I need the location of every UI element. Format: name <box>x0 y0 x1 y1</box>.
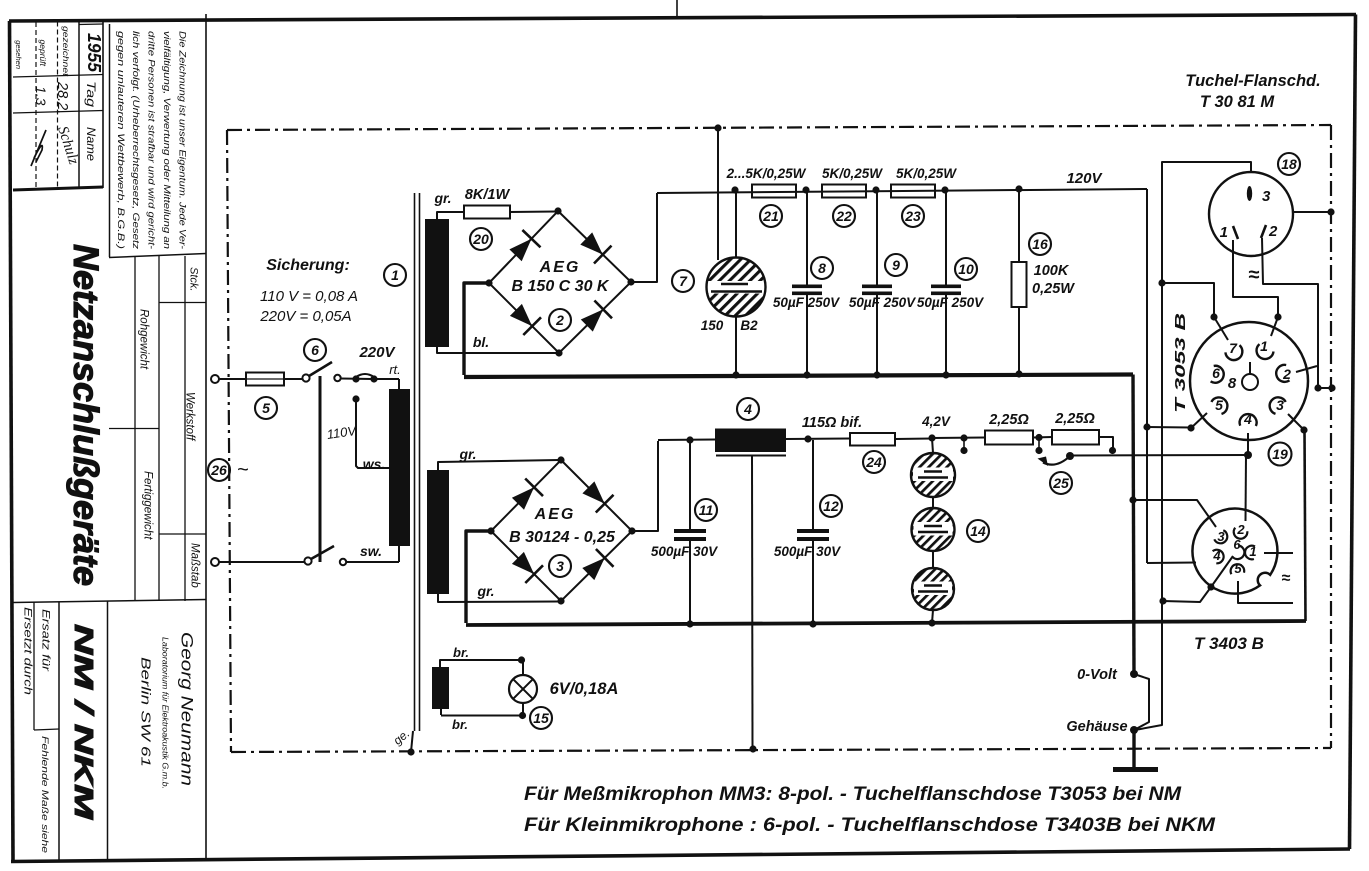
svg-text:br.: br. <box>452 717 468 732</box>
svg-text:Laboratorium für Elektroakusti: Laboratorium für Elektroakustik G.m.b. <box>161 637 170 789</box>
svg-text:23: 23 <box>904 208 921 224</box>
svg-text:gesehen: gesehen <box>14 40 23 69</box>
svg-text:120V: 120V <box>1066 170 1103 187</box>
svg-text:115Ω bif.: 115Ω bif. <box>802 415 862 431</box>
svg-text:sw.: sw. <box>360 543 382 559</box>
svg-text:4: 4 <box>1243 411 1252 427</box>
svg-text:5: 5 <box>1215 397 1223 413</box>
svg-text:gr.: gr. <box>476 583 494 599</box>
svg-text:1: 1 <box>1220 224 1228 241</box>
svg-text:gr.: gr. <box>433 190 451 206</box>
svg-text:25: 25 <box>1052 475 1069 491</box>
svg-text:2: 2 <box>555 312 564 328</box>
svg-text:5: 5 <box>1234 561 1242 576</box>
svg-text:AEG: AEG <box>534 506 576 523</box>
svg-text:B 150 C 30 K: B 150 C 30 K <box>512 278 610 295</box>
svg-text:10: 10 <box>958 261 974 277</box>
svg-text:8K/1W: 8K/1W <box>465 187 511 203</box>
svg-text:12: 12 <box>823 498 839 514</box>
svg-text:rt.: rt. <box>389 362 401 377</box>
svg-text:7: 7 <box>1229 340 1238 356</box>
svg-text:500µF 30V: 500µF 30V <box>774 544 841 559</box>
svg-text:Ersatz für: Ersatz für <box>40 609 52 673</box>
svg-text:AEG: AEG <box>539 259 581 276</box>
svg-text:T 3053 B: T 3053 B <box>1172 313 1189 413</box>
svg-text:3: 3 <box>1276 397 1284 413</box>
svg-text:4,2V: 4,2V <box>921 414 951 429</box>
svg-text:Maßstab: Maßstab <box>189 543 201 588</box>
svg-text:18: 18 <box>1281 156 1297 172</box>
svg-text:0,25W: 0,25W <box>1032 281 1075 297</box>
svg-text:Werkstoff: Werkstoff <box>184 392 196 442</box>
svg-text:2: 2 <box>1236 522 1245 537</box>
svg-text:150: 150 <box>701 318 724 333</box>
svg-text:50µF 250V: 50µF 250V <box>917 295 984 310</box>
svg-text:2,25Ω: 2,25Ω <box>988 412 1029 428</box>
svg-text:Netzanschlußgeräte: Netzanschlußgeräte <box>66 244 106 586</box>
svg-text:Rohgewicht: Rohgewicht <box>138 309 150 370</box>
svg-text:20: 20 <box>472 231 489 247</box>
svg-text:7: 7 <box>679 273 688 289</box>
svg-text:1.3: 1.3 <box>33 86 49 106</box>
svg-text:Fertiggewicht: Fertiggewicht <box>142 471 154 540</box>
svg-text:1955: 1955 <box>84 33 104 73</box>
svg-text:5K/0,25W: 5K/0,25W <box>822 166 883 181</box>
svg-text:Georg Neumann: Georg Neumann <box>178 632 196 786</box>
svg-text:NM / NKM: NM / NKM <box>69 624 99 821</box>
svg-text:Die Zeichnung ist unser Eigent: Die Zeichnung ist unser Eigentum. Jede V… <box>177 31 187 249</box>
svg-text:br.: br. <box>453 645 469 660</box>
svg-text:3: 3 <box>556 558 564 574</box>
svg-text:ws.: ws. <box>363 456 386 472</box>
svg-text:100K: 100K <box>1034 263 1070 279</box>
svg-text:6: 6 <box>1233 537 1241 552</box>
svg-text:4: 4 <box>743 401 752 417</box>
svg-text:1: 1 <box>1260 338 1268 354</box>
svg-text:220V = 0,05A: 220V = 0,05A <box>259 308 351 325</box>
svg-text:1: 1 <box>1249 544 1256 559</box>
svg-text:1: 1 <box>391 267 399 283</box>
svg-text:8: 8 <box>1228 375 1237 392</box>
svg-text:Für Meßmikrophon MM3: 8-pol.: Für Meßmikrophon MM3: 8-pol. - Tuchelfla… <box>524 784 1182 805</box>
svg-text:Für Kleinmikrophone : 6-po: Für Kleinmikrophone : 6-pol. - Tuchelfla… <box>524 815 1216 836</box>
svg-text:lich verfolgt. (Urheberrech: lich verfolgt. (Urheberrechtsgesetz, Ges… <box>131 31 141 249</box>
svg-text:T 30 81 M: T 30 81 M <box>1200 93 1276 111</box>
svg-text:11: 11 <box>699 502 714 518</box>
svg-text:19: 19 <box>1272 446 1288 462</box>
svg-text:Stck.: Stck. <box>188 267 200 291</box>
svg-text:Tag: Tag <box>84 81 98 107</box>
svg-text:B2: B2 <box>740 318 758 333</box>
svg-text:geprüft: geprüft <box>38 40 48 67</box>
svg-text:2...5K/0,25W: 2...5K/0,25W <box>726 166 807 181</box>
svg-text:vielfältigung, Verwertung oder: vielfältigung, Verwertung oder Mitteilun… <box>162 31 172 249</box>
svg-text:Sicherung:: Sicherung: <box>266 257 350 274</box>
svg-text:220V: 220V <box>358 344 396 361</box>
svg-text:6: 6 <box>1212 365 1220 381</box>
svg-text:gr.: gr. <box>458 446 476 462</box>
svg-text:0-Volt: 0-Volt <box>1077 667 1118 683</box>
svg-text:gezeichnet: gezeichnet <box>61 26 71 77</box>
svg-text:2: 2 <box>1282 366 1291 382</box>
svg-text:T 3403 B: T 3403 B <box>1194 634 1264 653</box>
svg-text:4: 4 <box>1212 548 1221 563</box>
svg-text:22: 22 <box>835 208 852 224</box>
svg-text:110 V = 0,08 A: 110 V = 0,08 A <box>260 288 358 305</box>
svg-text:Ersetzt durch: Ersetzt durch <box>22 607 34 695</box>
svg-text:bl.: bl. <box>473 334 489 350</box>
svg-text:Gehäuse: Gehäuse <box>1066 719 1127 735</box>
svg-text:≈: ≈ <box>1249 264 1260 286</box>
svg-text:26: 26 <box>210 462 227 478</box>
svg-text:6: 6 <box>311 342 319 358</box>
svg-text:21: 21 <box>762 208 779 224</box>
svg-text:Name: Name <box>84 127 98 161</box>
svg-text:gegen unlauteren Wettbewerb, B: gegen unlauteren Wettbewerb, B.G.B.) <box>116 31 126 249</box>
svg-text:14: 14 <box>970 523 986 539</box>
svg-text:24: 24 <box>865 454 882 470</box>
svg-text:Tuchel-Flanschd.: Tuchel-Flanschd. <box>1185 72 1320 90</box>
svg-text:6V/0,18A: 6V/0,18A <box>550 680 619 698</box>
svg-text:2: 2 <box>1268 223 1278 240</box>
svg-text:50µF 250V: 50µF 250V <box>773 295 840 310</box>
svg-text:~: ~ <box>237 459 249 481</box>
svg-text:16: 16 <box>1032 236 1048 252</box>
svg-text:Berlin SW 61: Berlin SW 61 <box>139 657 154 767</box>
svg-text:3: 3 <box>1262 188 1271 205</box>
svg-text:28.2.: 28.2. <box>54 81 70 114</box>
svg-text:15: 15 <box>533 710 549 726</box>
svg-text:Fehlende Maße siehe: Fehlende Maße siehe <box>39 736 50 853</box>
svg-text:dritte Personen ist strafbar u: dritte Personen ist strafbar und wird ge… <box>147 31 157 249</box>
svg-text:≈: ≈ <box>1282 570 1291 587</box>
svg-text:50µF 250V: 50µF 250V <box>849 295 916 310</box>
svg-text:8: 8 <box>818 260 826 276</box>
svg-text:B 30124 - 0,25: B 30124 - 0,25 <box>509 529 616 546</box>
svg-text:5: 5 <box>262 400 270 416</box>
svg-text:2,25Ω: 2,25Ω <box>1054 411 1095 427</box>
svg-text:5K/0,25W: 5K/0,25W <box>896 166 957 181</box>
svg-text:500µF 30V: 500µF 30V <box>651 544 718 559</box>
svg-text:9: 9 <box>892 257 900 273</box>
svg-text:3: 3 <box>1217 529 1225 544</box>
